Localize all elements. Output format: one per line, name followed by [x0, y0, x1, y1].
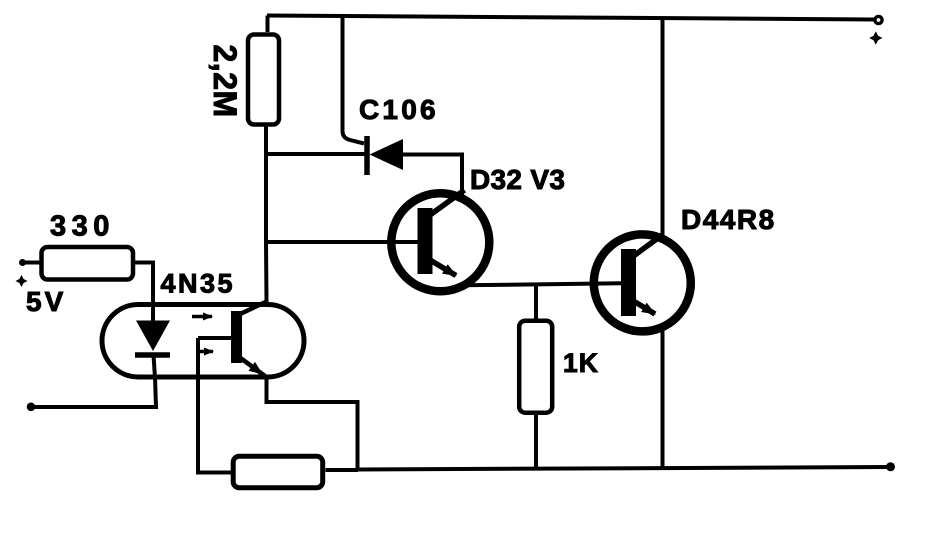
svg-text:1K: 1K [563, 348, 599, 378]
transistor D44R8 circle [594, 234, 691, 331]
light arrow upper [192, 315, 212, 319]
svg-text:2,2M: 2,2M [207, 45, 243, 118]
resistor 1K body [519, 321, 552, 413]
transistor D32V3 base bar [418, 208, 433, 274]
opto phototransistor emitter arrowhead [249, 362, 264, 375]
opto LED cathode bar [135, 352, 170, 358]
wire vertical bus down to D32V3 base node [264, 154, 268, 244]
svg-text:330: 330 [50, 211, 115, 243]
wire base D32V3 [264, 240, 419, 244]
bottom rail [358, 467, 890, 470]
svg-text:D44R8: D44R8 [681, 204, 776, 235]
wire 2,2M top lead [266, 16, 270, 33]
opto phototransistor collector stroke [236, 302, 267, 317]
terminal input return (filled dot) [27, 403, 36, 412]
svg-text:4N35: 4N35 [161, 269, 236, 299]
thyristor C106 cathode bar [364, 136, 370, 175]
opto LED cathode lead [154, 355, 156, 378]
transistor D44R8 collector stroke [634, 234, 664, 256]
opto phototransistor bar [231, 311, 242, 363]
transistor D32V3 collector stroke [430, 190, 465, 215]
svg-text:5V: 5V [26, 286, 66, 317]
svg-text:D32 V3: D32 V3 [470, 164, 565, 195]
transistor D32V3 circle [391, 193, 489, 291]
optocoupler 4N35 package [102, 305, 304, 378]
wire resistor right lead to rail junction [326, 468, 359, 472]
terminal bottom rail (filled dot) [886, 462, 895, 471]
resistor 330 body [42, 247, 134, 280]
wire LED cathode to input terminal [31, 377, 156, 407]
wire opto emitter down and to bottom rail junction [267, 377, 358, 470]
thyristor C106 triangle [370, 139, 404, 170]
resistor base-emitter body [233, 456, 323, 488]
wire cathode node branch to C106 [264, 152, 365, 156]
wire vertical bus down to opto collector [264, 242, 269, 302]
+ polarity mark (top right sparkle) [869, 31, 882, 45]
wire 330 to opto LED anode [135, 263, 153, 307]
resistor 2,2M body [248, 35, 279, 125]
transistor D44R8 emitter stroke with arrow [634, 301, 656, 314]
transistor D32V3 emitter stroke with arrow [430, 260, 456, 276]
opto base stroke [198, 336, 233, 340]
wire C106 anode to D32V3 collector [402, 155, 462, 199]
wire 2,2M bottom lead down to cathode node [264, 127, 268, 157]
wire top rail to C106 cathode [343, 16, 365, 144]
+ polarity mark (5V sparkle) [16, 275, 28, 287]
light arrow lower [197, 350, 213, 354]
opto phototransistor emitter stroke [237, 356, 267, 378]
wire 1K top lead [534, 284, 538, 319]
svg-text:C106: C106 [359, 94, 439, 125]
opto LED anode lead [151, 304, 155, 322]
terminal + (top right, open circle) [875, 16, 882, 23]
opto LED triangle [136, 321, 170, 352]
terminal 5V input (filled dot) [19, 259, 26, 266]
wire opto base down to resistor [198, 338, 231, 473]
top rail (positive supply wire) [267, 16, 875, 20]
wire 1K bottom lead [534, 415, 538, 469]
wire D32V3 emitter to D44R8 base [462, 283, 622, 285]
transistor D44R8 base bar [621, 249, 636, 316]
wire top rail to D44R8 collector [661, 18, 665, 237]
wire D44R8 emitter to bottom rail [661, 328, 665, 468]
wire 5V terminal to 330 [23, 261, 41, 265]
